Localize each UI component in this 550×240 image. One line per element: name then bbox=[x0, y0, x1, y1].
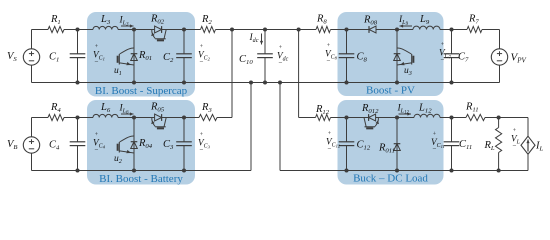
switch u1 body diode bbox=[131, 54, 138, 61]
wire: ground link to load half bbox=[278, 81, 282, 85]
svg-text:−: − bbox=[327, 57, 331, 65]
svg-text:−: − bbox=[95, 58, 99, 66]
capacitor C12 bbox=[346, 118, 348, 142]
switch R05 IGBT bbox=[155, 126, 166, 128]
diode R08 bbox=[369, 26, 376, 33]
converter block: BI. Boost - Battery bbox=[87, 100, 195, 185]
svg-text:−: − bbox=[328, 145, 332, 153]
switch R012 IGBT bbox=[365, 126, 376, 128]
svg-text:−: − bbox=[441, 56, 445, 64]
inductor L12 bbox=[414, 114, 440, 117]
svg-text:−: − bbox=[433, 145, 437, 153]
resistor R4 bbox=[48, 114, 64, 120]
wire: battery rail segments bbox=[32, 117, 49, 119]
switch u1 IGBT bbox=[118, 54, 120, 65]
svg-text:−: − bbox=[513, 142, 517, 150]
wire: top DC bus rail segments bbox=[32, 29, 49, 31]
resistor R8 bbox=[316, 26, 331, 32]
current arrow IL3 bbox=[121, 25, 134, 27]
svg-text:Boost - PV: Boost - PV bbox=[366, 85, 415, 97]
capacitor C10 dc-link bbox=[264, 30, 266, 54]
wire: R3 link vertical bbox=[231, 30, 233, 118]
switch R012 diode bbox=[369, 114, 376, 121]
load resistor RL bbox=[497, 116, 501, 120]
switch R05 diode bbox=[155, 114, 162, 121]
capacitor C8 bbox=[346, 30, 348, 54]
svg-text:−: − bbox=[200, 58, 204, 66]
switch u3 body diode bbox=[394, 54, 401, 61]
current arrow IL12 bbox=[399, 113, 412, 115]
resistor R1 bbox=[48, 26, 64, 32]
svg-text:−: − bbox=[95, 146, 99, 154]
svg-text:−: − bbox=[200, 146, 204, 154]
capacitor C3 bbox=[183, 118, 185, 142]
switch u2 column wire bbox=[133, 118, 135, 171]
resistor R3 bbox=[199, 114, 217, 120]
switch R02 diode bbox=[155, 26, 162, 33]
inductor L6 bbox=[93, 114, 118, 117]
capacitor C4 bbox=[77, 118, 79, 142]
resistor R12 bbox=[316, 114, 331, 120]
resistor R7 bbox=[467, 26, 482, 32]
diode R011 freewheel bbox=[396, 118, 398, 171]
switch u1 column wire bbox=[133, 30, 135, 83]
switch R02 IGBT bbox=[155, 38, 166, 40]
voltage source VB bbox=[31, 118, 33, 137]
resistor R2 bbox=[201, 26, 216, 32]
wire: load ground rail bbox=[280, 170, 528, 172]
inductor L9 bbox=[413, 26, 440, 29]
svg-text:Buck – DC Load: Buck – DC Load bbox=[353, 173, 428, 185]
current arrow IL6 bbox=[121, 113, 134, 115]
switch u2 body diode bbox=[131, 142, 138, 149]
capacitor C1 bbox=[77, 30, 79, 54]
wire: ground rail (top half) bbox=[32, 82, 500, 84]
switch u2 IGBT bbox=[118, 142, 120, 153]
converter block: BI. Boost - Supercap bbox=[87, 12, 195, 97]
svg-text:−: − bbox=[279, 59, 283, 67]
wire: ground link to battery half bbox=[249, 81, 253, 85]
wire: battery ground rail bbox=[32, 170, 252, 172]
capacitor C11 bbox=[451, 118, 453, 142]
converter block: Boost - PV bbox=[338, 12, 444, 96]
current arrow Idc bbox=[261, 34, 263, 45]
switch u3 column wire bbox=[396, 30, 398, 83]
voltage source VPV bbox=[499, 30, 501, 49]
resistor R11 bbox=[466, 114, 485, 120]
converter block: Buck - DC Load bbox=[338, 100, 444, 185]
inductor L3 bbox=[93, 26, 118, 29]
switch u3 IGBT bbox=[411, 54, 413, 65]
wire: DC bus to buck converter link bbox=[297, 28, 301, 32]
current arrow IL9 bbox=[400, 25, 413, 27]
node: R3 to DC bus junction bbox=[230, 28, 234, 32]
node: DC-link capacitor top bbox=[263, 28, 267, 32]
current source IL (controlled) bbox=[527, 118, 529, 137]
capacitor C2 bbox=[183, 30, 185, 54]
wire: buck rail segments bbox=[299, 117, 316, 119]
capacitor C7 bbox=[451, 30, 453, 54]
svg-text:BI. Boost - Battery: BI. Boost - Battery bbox=[99, 173, 183, 185]
voltage source VS bbox=[31, 30, 33, 49]
node: buck freewheel node bbox=[395, 116, 399, 120]
svg-text:BI. Boost - Supercap: BI. Boost - Supercap bbox=[95, 85, 188, 97]
